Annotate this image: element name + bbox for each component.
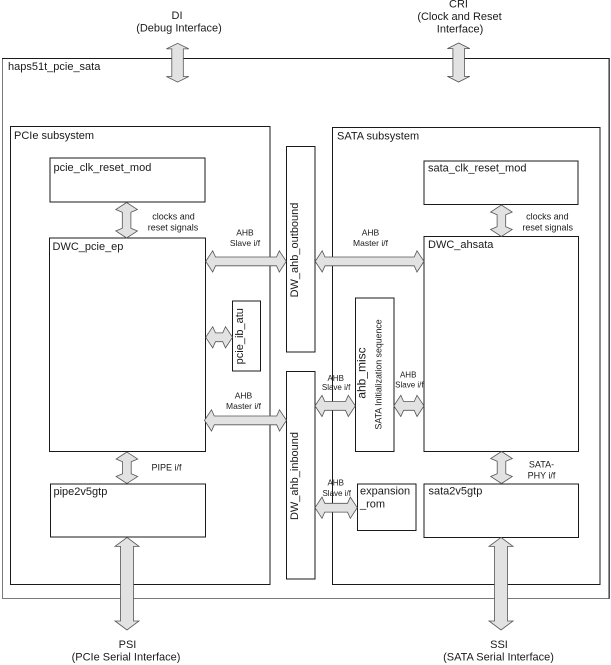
svg-text:reset signals: reset signals [522,223,573,233]
svg-text:Interface): Interface) [437,24,483,36]
wire arrow AHB slave: DW_ahb_inbound to ahb_misc [315,395,355,416]
svg-text:_rom: _rom [359,499,385,511]
svg-text:(SATA Serial Interface): (SATA Serial Interface) [443,652,554,664]
svg-text:reset signals: reset signals [148,223,199,233]
svg-text:AHB: AHB [327,478,343,487]
block SATA subsystem [333,128,601,585]
wire arrow clocks and reset: pcie_clk_reset_mod to DWC_pcie_ep [116,203,138,239]
svg-text:AHB: AHB [327,374,343,383]
svg-text:pipe2v5gtp: pipe2v5gtp [54,486,108,498]
wire arrow DWC_pcie_ep to pcie_ib_atu [206,327,233,348]
svg-text:Slave i/f: Slave i/f [230,238,261,248]
block PCIe subsystem [11,127,271,585]
svg-text:(Debug Interface): (Debug Interface) [136,23,222,35]
wire arrow AHB slave: DWC_pcie_ep to DW_ahb_outbound [206,251,287,272]
svg-text:sata2v5gtp: sata2v5gtp [429,486,483,498]
wire arrow AHB slave: DW_ahb_inbound to expansion_rom [315,497,357,518]
svg-text:SATA Initialization sequence: SATA Initialization sequence [374,319,384,429]
svg-text:haps51t_pcie_sata: haps51t_pcie_sata [8,61,101,73]
block expansion_rom [358,484,417,531]
svg-text:DW_ahb_inbound: DW_ahb_inbound [289,432,301,520]
wire arrow AHB master: DWC_pcie_ep to DW_ahb_inbound [205,410,287,431]
wire arrow AHB master: DW_ahb_outbound to DWC_ahsata [315,251,424,272]
block DW_ahb_inbound [287,372,316,580]
svg-text:DW_ahb_outbound: DW_ahb_outbound [289,203,301,298]
wire arrow PIPE: DWC_pcie_ep to pipe2v5gtp [116,452,138,484]
svg-text:AHB: AHB [235,390,253,400]
svg-text:pcie_ib_atu: pcie_ib_atu [234,308,246,364]
svg-text:SATA-: SATA- [529,459,554,469]
block pcie_ib_atu [233,301,261,371]
wire arrow AHB slave: ahb_misc to DWC_ahsata [394,395,424,416]
svg-text:Master i/f: Master i/f [226,401,262,411]
svg-text:AHB: AHB [400,370,416,379]
svg-text:AHB: AHB [236,228,254,238]
svg-text:PSI: PSI [119,639,137,651]
svg-text:SATA subsystem: SATA subsystem [337,131,419,143]
svg-text:clocks and: clocks and [152,212,195,222]
svg-text:DWC_ahsata: DWC_ahsata [428,239,494,251]
block DW_ahb_outbound [287,147,316,353]
svg-text:SSI: SSI [490,639,508,651]
svg-text:sata_clk_reset_mod: sata_clk_reset_mod [428,163,526,175]
block DWC_ahsata [424,237,579,452]
svg-text:Slave i/f: Slave i/f [322,383,351,392]
svg-text:AHB: AHB [362,228,380,238]
svg-text:Master i/f: Master i/f [353,238,389,248]
wire arrow SATA-PHY: DWC_ahsata to sata2v5gtp [491,452,513,484]
wire arrow clocks and reset: sata_clk_reset_mod to DWC_ahsata [491,205,513,237]
port arrow CRI Clock and Reset Interface [447,43,469,82]
svg-text:DI: DI [172,10,183,22]
block DWC_pcie_ep [50,238,206,452]
svg-text:Slave i/f: Slave i/f [395,380,424,389]
block pipe2v5gtp [51,484,206,537]
block pcie_clk_reset_mod [50,158,205,202]
svg-text:pcie_clk_reset_mod: pcie_clk_reset_mod [54,162,152,174]
svg-text:expansion: expansion [360,486,410,498]
svg-text:Slave i/f: Slave i/f [322,489,351,498]
svg-text:(PCIe Serial Interface): (PCIe Serial Interface) [72,652,181,664]
svg-text:DWC_pcie_ep: DWC_pcie_ep [53,241,124,253]
svg-text:clocks and: clocks and [526,212,569,222]
port arrow SSI SATA Serial Interface [489,537,513,630]
svg-text:CRI: CRI [449,0,468,11]
port arrow PSI PCIe Serial Interface [115,537,139,630]
block sata2v5gtp [424,484,579,538]
svg-text:PIPE i/f: PIPE i/f [151,463,182,473]
svg-text:PCIe subsystem: PCIe subsystem [14,130,94,142]
svg-text:(Clock and Reset: (Clock and Reset [417,11,501,23]
svg-text:PHY i/f: PHY i/f [528,471,556,481]
svg-text:ahb_misc: ahb_misc [355,347,369,398]
block ahb_misc [355,298,394,452]
block sata_clk_reset_mod [424,161,578,205]
port arrow DI Debug Interface [166,43,188,82]
